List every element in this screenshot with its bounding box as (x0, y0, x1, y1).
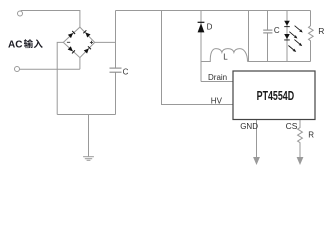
svg-text:GND: GND (240, 122, 258, 131)
diode top-right (points to top vertex) (83, 30, 91, 38)
wire Drain (201, 81, 233, 83)
wire HV drop (162, 11, 234, 105)
terminal top-left (18, 11, 23, 16)
IC U1 PT4554D box (233, 71, 315, 120)
ground arrow GND pin (253, 157, 260, 165)
terminal bottom-left (15, 67, 20, 72)
bridge BR1 diamond (63, 27, 94, 57)
diode top-left (points to top vertex) (68, 30, 76, 38)
top rail (116, 10, 311, 12)
capacitor C2 plates (263, 30, 272, 33)
label AC输入 (8, 39, 43, 50)
wire bridge right vertex to cap column (95, 41, 116, 43)
diode bottom-left (points to bottom vertex) (68, 46, 76, 54)
svg-text:CS: CS (286, 121, 298, 131)
capacitor C2 output column (267, 11, 269, 30)
ground (earth) under bridge (83, 157, 94, 161)
wire bridge bottom vertex down (79, 58, 81, 70)
diode D column (200, 11, 202, 82)
wire bridge left vertex to left riser (57, 42, 63, 114)
wire ground stem (88, 115, 90, 157)
LED emission arrows (287, 25, 303, 54)
svg-text:C: C (274, 26, 280, 35)
diode D symbol (198, 22, 205, 32)
svg-text:PT4554D: PT4554D (257, 88, 295, 103)
bridge diode arrows (68, 30, 92, 54)
wire GND stem (256, 120, 258, 158)
resistor R2 (CS) (298, 120, 303, 158)
capacitor C1 input column (115, 11, 117, 68)
svg-text:AC: AC (8, 39, 22, 50)
wire bottom DC rail (57, 114, 115, 116)
resistor R1 (load) (309, 11, 314, 62)
svg-text:HV: HV (211, 96, 223, 105)
wire bottom AC (20, 68, 80, 70)
svg-text:Drain: Drain (208, 73, 227, 82)
svg-text:R: R (308, 131, 314, 140)
bridge minus sign (67, 41, 70, 43)
LED1 (284, 21, 290, 27)
svg-text:D: D (207, 22, 213, 31)
LED column (286, 11, 288, 62)
wire output left riser (248, 11, 250, 62)
diode bottom-right (points to right vertex) (84, 46, 92, 54)
wire top AC to bridge top (21, 11, 80, 28)
LED2 (284, 34, 290, 40)
inductor L (201, 49, 248, 62)
ground arrow CS resistor (297, 157, 304, 165)
svg-text:R: R (318, 26, 324, 36)
svg-text:L: L (223, 52, 228, 61)
capacitor C1 plates (110, 68, 122, 72)
bridge plus sign (90, 41, 93, 44)
svg-text:C: C (123, 68, 129, 77)
wire output bottom rail (248, 61, 311, 63)
